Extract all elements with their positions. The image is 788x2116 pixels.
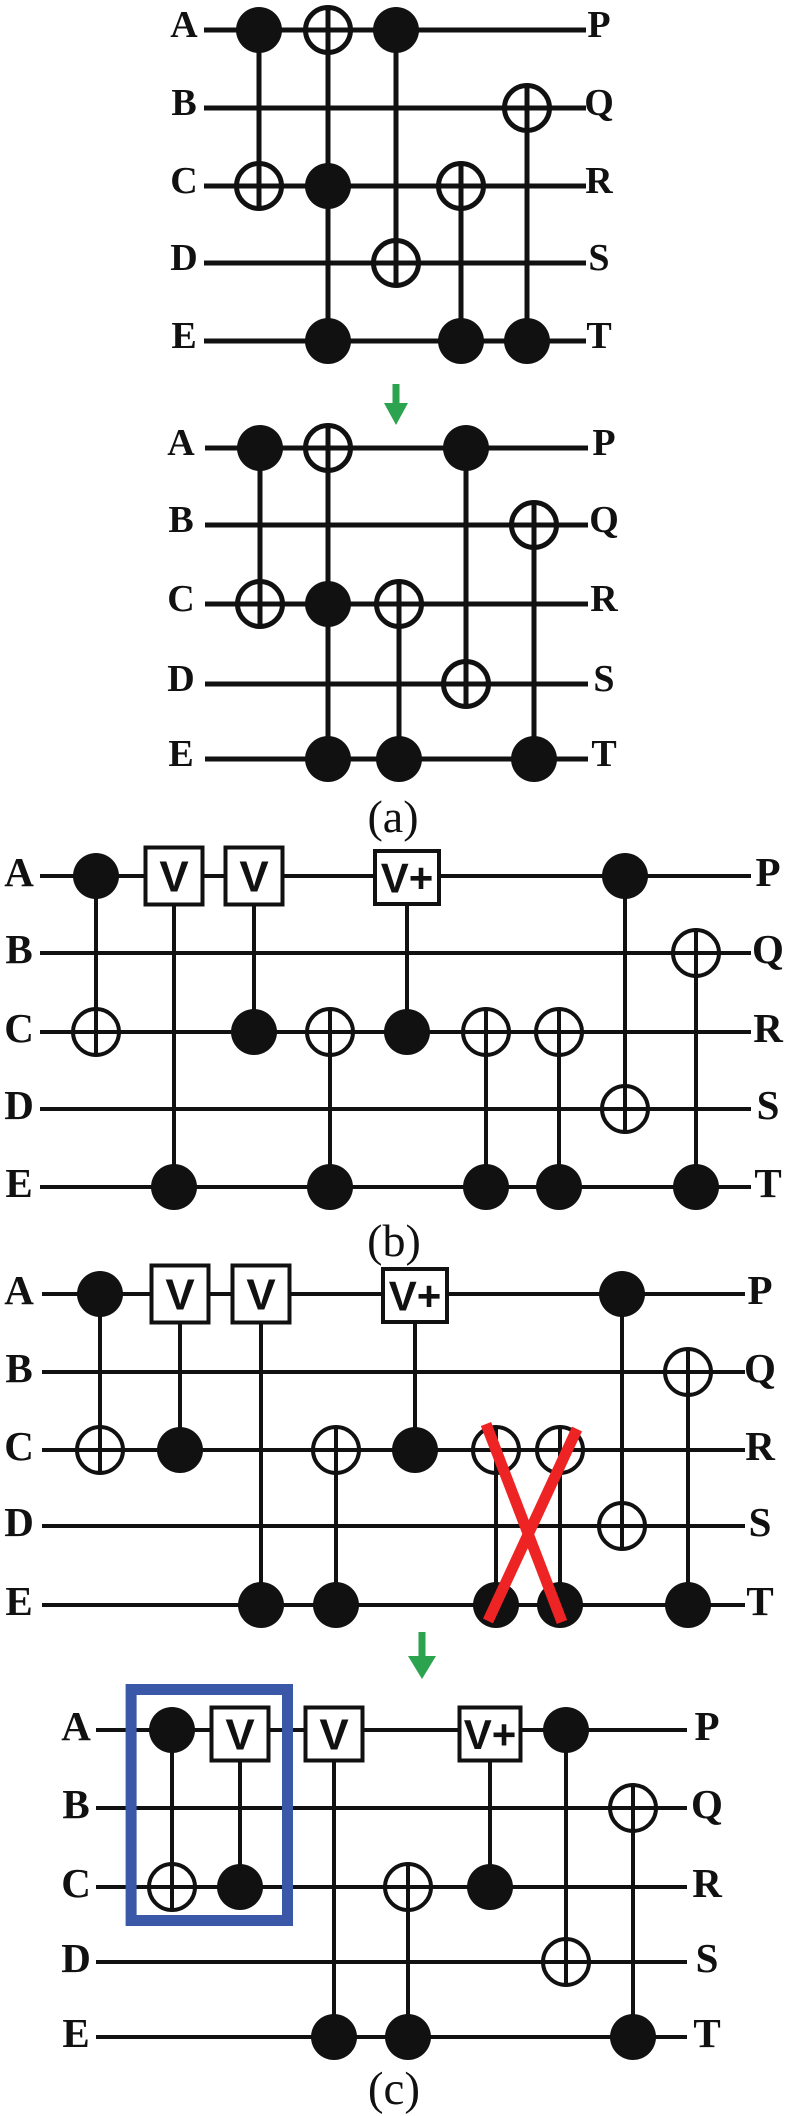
svg-text:P: P xyxy=(747,1267,772,1313)
gate c2-1 CNOT: control A, target C xyxy=(149,1707,195,1910)
svg-text:R: R xyxy=(585,160,613,202)
svg-text:Q: Q xyxy=(691,1781,723,1827)
wire C (circuit a1) xyxy=(204,184,586,189)
svg-text:P: P xyxy=(587,4,610,46)
gate a2-4 CNOT: control A, target D xyxy=(443,425,489,707)
svg-text:D: D xyxy=(4,1499,34,1545)
svg-text:V: V xyxy=(319,1711,349,1760)
svg-text:V+: V+ xyxy=(381,854,434,901)
wire E (circuit a2) xyxy=(205,757,588,762)
wire C (circuit a2) xyxy=(205,602,588,607)
green transform arrow 1 xyxy=(384,384,408,425)
gate b1 CNOT: control A, target C xyxy=(73,853,119,1055)
svg-text:A: A xyxy=(167,422,195,464)
svg-text:T: T xyxy=(754,1160,781,1206)
wire A (circuit a1) xyxy=(204,28,586,33)
gate a1-5 CNOT: control E, target B xyxy=(504,85,550,364)
svg-text:A: A xyxy=(170,4,198,46)
svg-text:S: S xyxy=(588,237,609,279)
svg-text:T: T xyxy=(746,1578,773,1624)
gate c2-5 controlled-V+: V+ box on A, control C xyxy=(460,1708,521,1911)
svg-text:T: T xyxy=(693,2010,720,2056)
gate c1-1 CNOT: control A, target C xyxy=(77,1271,123,1473)
gate c1-3 controlled-V: V box on A, control E xyxy=(233,1266,290,1629)
svg-text:V: V xyxy=(246,1271,276,1320)
wire D (circuit a1) xyxy=(204,261,586,266)
svg-text:Q: Q xyxy=(752,926,784,972)
wire C (circuit c2) xyxy=(96,1885,687,1889)
svg-text:B: B xyxy=(5,926,32,972)
svg-text:E: E xyxy=(5,1578,32,1624)
svg-text:B: B xyxy=(62,1781,89,1827)
blue grouping rectangle around gates c2-1 and c2-2 xyxy=(131,1690,287,1921)
svg-text:S: S xyxy=(757,1082,780,1128)
svg-text:S: S xyxy=(749,1499,772,1545)
gate c1-5 controlled-V+: V+ box on A, control C xyxy=(383,1269,447,1473)
gate c2-2 controlled-V: V box on A, control C xyxy=(212,1708,269,1911)
svg-text:P: P xyxy=(755,849,780,895)
wire E (circuit c1) xyxy=(42,1603,745,1607)
gate c1-7 CNOT: control E, target C (to be deleted) xyxy=(537,1427,583,1628)
wire A (circuit c2) xyxy=(96,1728,687,1732)
red X deletion mark over gates c1-6 and c1-7 xyxy=(486,1424,577,1622)
wire E (circuit a1) xyxy=(204,339,586,344)
svg-text:C: C xyxy=(4,1423,34,1469)
gate c2-7 CNOT: control E, target B xyxy=(610,1785,656,2060)
gate b7 CNOT: control E, target C xyxy=(536,1009,582,1210)
gate c1-8 CNOT: control A, target D xyxy=(599,1271,645,1549)
svg-text:V: V xyxy=(165,1271,195,1320)
svg-text:C: C xyxy=(61,1860,91,1906)
gate c1-6 CNOT: control E, target C (to be deleted) xyxy=(473,1427,519,1628)
green transform arrow 2 xyxy=(408,1632,436,1679)
svg-text:Q: Q xyxy=(744,1345,776,1391)
svg-text:R: R xyxy=(753,1005,783,1051)
svg-text:V: V xyxy=(159,853,189,902)
svg-text:S: S xyxy=(696,1935,719,1981)
wire D (circuit a2) xyxy=(205,682,588,687)
gate b2 controlled-V: V box on A, control E xyxy=(146,848,203,1211)
wire B (circuit b) xyxy=(40,951,751,955)
svg-text:R: R xyxy=(692,1860,722,1906)
wire B (circuit c2) xyxy=(96,1806,687,1810)
gate a1-4 CNOT: control E, target C xyxy=(438,163,484,364)
svg-text:V: V xyxy=(239,853,269,902)
wire A (circuit c1) xyxy=(42,1292,745,1296)
svg-text:A: A xyxy=(61,1703,91,1749)
svg-text:D: D xyxy=(4,1082,34,1128)
svg-text:D: D xyxy=(61,1935,91,1981)
svg-text:T: T xyxy=(591,733,616,775)
gate b3 controlled-V: V box on A, control C xyxy=(226,848,283,1056)
wire E (circuit b) xyxy=(40,1185,751,1189)
svg-text:C: C xyxy=(4,1005,34,1051)
svg-text:E: E xyxy=(171,315,196,357)
wire B (circuit a1) xyxy=(204,106,586,111)
svg-text:E: E xyxy=(62,2010,89,2056)
svg-text:T: T xyxy=(586,315,611,357)
svg-text:V+: V+ xyxy=(464,1711,517,1758)
gate b9 CNOT: control E, target B xyxy=(673,930,719,1210)
gate c1-9 CNOT: control E, target B xyxy=(665,1349,711,1628)
gate a1-2 Toffoli: target A, controls C and E xyxy=(305,7,351,364)
gate c1-2 controlled-V: V box on A, control C xyxy=(152,1266,209,1474)
wire C (circuit c1) xyxy=(42,1448,745,1452)
svg-text:V: V xyxy=(225,1711,255,1760)
svg-text:E: E xyxy=(168,733,193,775)
gate b4 CNOT: control E, target C xyxy=(307,1009,353,1210)
gate a2-5 CNOT: control E, target B xyxy=(511,502,557,782)
svg-text:P: P xyxy=(694,1703,719,1749)
gate a1-1 CNOT: control A, target C xyxy=(236,7,282,209)
svg-text:Q: Q xyxy=(589,499,619,541)
wire B (circuit a2) xyxy=(205,523,588,528)
gate c2-3 controlled-V: V box on A, control E xyxy=(306,1708,363,2061)
wire A (circuit b) xyxy=(40,874,751,878)
svg-text:B: B xyxy=(168,499,193,541)
svg-text:D: D xyxy=(170,237,197,279)
gate a2-2 Toffoli: target A, controls C and E xyxy=(305,425,351,782)
svg-text:A: A xyxy=(4,849,34,895)
svg-text:P: P xyxy=(592,422,615,464)
svg-text:Q: Q xyxy=(584,82,614,124)
wire B (circuit c1) xyxy=(42,1370,745,1374)
wire C (circuit b) xyxy=(40,1030,751,1034)
gate a1-3 CNOT: control A, target D xyxy=(373,7,419,286)
svg-text:(c): (c) xyxy=(368,2063,420,2115)
wire D (circuit c1) xyxy=(42,1524,745,1528)
svg-text:V+: V+ xyxy=(389,1272,442,1319)
svg-text:(a): (a) xyxy=(367,791,418,842)
svg-text:D: D xyxy=(167,658,194,700)
gate b5 controlled-V+: V+ box on A, control C xyxy=(375,851,439,1055)
gate c2-6 CNOT: control A, target D xyxy=(543,1707,589,1985)
svg-text:C: C xyxy=(167,578,194,620)
svg-text:R: R xyxy=(590,578,618,620)
svg-text:B: B xyxy=(171,82,196,124)
gate a2-1 CNOT: control A, target C xyxy=(237,425,283,627)
gate c1-4 CNOT: control E, target C xyxy=(313,1427,359,1628)
wire A (circuit a2) xyxy=(205,446,588,451)
svg-text:A: A xyxy=(4,1267,34,1313)
svg-text:(b): (b) xyxy=(367,1215,421,1266)
wire E (circuit c2) xyxy=(96,2035,687,2039)
svg-text:E: E xyxy=(5,1160,32,1206)
svg-text:R: R xyxy=(745,1423,775,1469)
gate b6 CNOT: control E, target C xyxy=(463,1009,509,1210)
gate c2-4 CNOT: control E, target C xyxy=(385,1864,431,2060)
gate a2-3 CNOT: control E, target C xyxy=(376,581,422,782)
gate b8 CNOT: control A, target D xyxy=(602,853,648,1132)
wire D (circuit c2) xyxy=(96,1960,687,1964)
wire D (circuit b) xyxy=(40,1107,751,1111)
svg-text:S: S xyxy=(593,658,614,700)
svg-text:C: C xyxy=(170,160,197,202)
svg-text:B: B xyxy=(5,1345,32,1391)
